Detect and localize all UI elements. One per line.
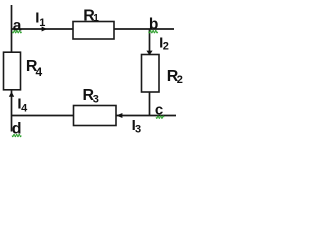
svg-text:1: 1 bbox=[93, 13, 99, 24]
resistor R1 body bbox=[73, 22, 114, 40]
svg-text:4: 4 bbox=[36, 65, 43, 79]
svg-text:2: 2 bbox=[177, 74, 183, 86]
wire right vertical (b to c) bbox=[149, 29, 151, 116]
current arrow I4 (points up) bbox=[9, 92, 14, 97]
wire top horizontal (a to b) bbox=[11, 28, 174, 30]
svg-text:4: 4 bbox=[21, 102, 28, 114]
resistor R2 body bbox=[142, 55, 160, 93]
squiggle under a bbox=[12, 30, 21, 33]
wire bottom horizontal (d to c) bbox=[11, 115, 176, 117]
current arrow I2 (points down) bbox=[146, 51, 152, 56]
svg-text:1: 1 bbox=[39, 17, 45, 29]
resistor R3 body bbox=[74, 106, 117, 126]
svg-text:3: 3 bbox=[93, 94, 99, 106]
svg-text:3: 3 bbox=[135, 123, 141, 135]
resistor R4 body bbox=[4, 52, 21, 90]
squiggle under d bbox=[12, 134, 21, 137]
svg-text:c: c bbox=[155, 102, 163, 119]
squiggle under b bbox=[149, 30, 158, 33]
wire left vertical (a to d) bbox=[11, 5, 13, 132]
current arrow I1 (points right) bbox=[42, 27, 47, 32]
svg-text:2: 2 bbox=[163, 41, 169, 53]
squiggle under c bbox=[156, 116, 164, 119]
current arrow I3 (points left) bbox=[116, 113, 122, 118]
